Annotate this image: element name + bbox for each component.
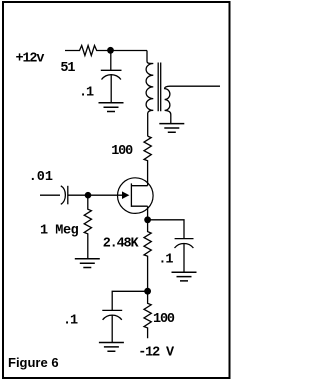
svg-text:-12 V: -12 V	[138, 345, 175, 360]
svg-text:1 Meg: 1 Meg	[40, 224, 79, 239]
svg-text:.1: .1	[63, 313, 78, 328]
svg-text:.01: .01	[29, 170, 53, 185]
svg-text:2.48K: 2.48K	[103, 237, 140, 252]
svg-text:100: 100	[153, 312, 175, 327]
svg-text:100: 100	[111, 144, 133, 159]
svg-text:.1: .1	[79, 86, 94, 101]
svg-text:Figure 6: Figure 6	[8, 355, 59, 370]
svg-text:+12v: +12v	[16, 52, 45, 67]
svg-text:.1: .1	[158, 253, 173, 268]
svg-text:51: 51	[60, 61, 75, 76]
